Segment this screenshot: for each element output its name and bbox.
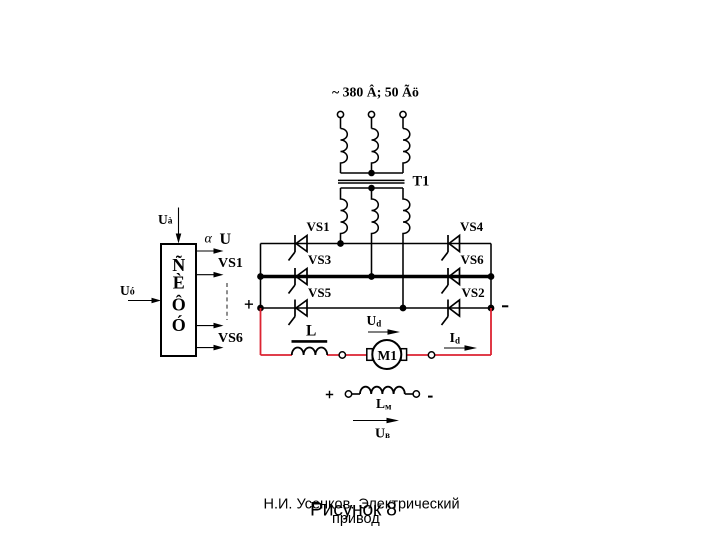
svg-text:Uà: Uà [158, 212, 173, 227]
control unit SIFU box [161, 244, 196, 356]
svg-text:Ud: Ud [367, 313, 382, 329]
arrow Ud [368, 329, 400, 335]
svg-text:Uв: Uв [375, 426, 390, 441]
transformer core line 1 [338, 179, 405, 181]
svg-text:VS2: VS2 [462, 285, 485, 300]
motor M1 brush left [367, 349, 373, 361]
arrow Id [444, 345, 477, 351]
thyristor VS3 [289, 268, 308, 294]
svg-text:Ô: Ô [172, 294, 186, 315]
junction left bus rail3 [258, 305, 263, 310]
svg-text:VS6: VS6 [461, 252, 485, 267]
svg-text:U: U [220, 231, 232, 248]
junction right bus rail2 [488, 274, 493, 279]
junction winding a rail1 [338, 241, 343, 246]
svg-text:α: α [205, 232, 213, 247]
svg-text:L: L [306, 323, 316, 340]
right dc bus [490, 244, 492, 309]
input arrow left [128, 298, 161, 304]
motor M1 circle [372, 340, 401, 369]
output arrow 4 [197, 345, 224, 351]
svg-text:VS3: VS3 [308, 252, 332, 267]
terminal circle right of motor [428, 352, 434, 358]
output arrow 1 [197, 248, 224, 254]
svg-text:Uó: Uó [120, 283, 135, 298]
secondary star bus [341, 187, 404, 189]
plus sign field [326, 391, 333, 399]
junction right bus rail3 [488, 305, 493, 310]
bridge rail 2 (bold) [261, 275, 492, 278]
junction winding b rail2 [369, 274, 374, 279]
red wire bottom loop [261, 354, 492, 356]
input arrow top [176, 208, 182, 244]
wire field right [405, 393, 413, 395]
junction winding c rail3 [400, 305, 405, 310]
smoothing reactor L coil [292, 348, 327, 355]
output arrow 3 [197, 323, 224, 329]
transformer T1 secondary winding a [341, 188, 348, 244]
output arrow 2 [197, 272, 224, 278]
red wire right bus down [490, 308, 492, 355]
left dc bus [260, 244, 262, 309]
reactor core bar [292, 340, 328, 343]
thyristor VS5 [289, 300, 308, 326]
junction left bus rail2 [258, 274, 263, 279]
dashed line outputs [226, 283, 228, 320]
red wire left bus down [260, 308, 262, 355]
minus sign dc output [502, 305, 508, 307]
terminal phase B [368, 111, 374, 117]
primary star bus [341, 172, 404, 174]
thyristor VS2 [442, 300, 460, 326]
bridge rail 3 [261, 307, 492, 309]
minus sign field [428, 396, 433, 398]
arrow Uv [353, 418, 399, 424]
terminal circle field right [413, 391, 419, 397]
transformer core line 2 [338, 182, 405, 184]
transformer T1 primary winding B [372, 129, 379, 174]
terminal circle left of motor [339, 352, 345, 358]
transformer T1 primary winding C [403, 129, 410, 174]
field winding Lm coil [360, 387, 405, 394]
thyristor VS1 [289, 235, 308, 261]
junction secondary star point [369, 186, 374, 191]
terminal phase A [337, 111, 343, 117]
svg-text:T1: T1 [413, 174, 430, 190]
transformer T1 primary winding A [341, 129, 348, 174]
wire C terminal to primary coil [402, 118, 404, 129]
wire A terminal to primary coil [340, 118, 342, 129]
svg-text:VS5: VS5 [308, 285, 332, 300]
plus sign dc output [245, 300, 253, 309]
svg-text:~ 380 Â; 50 Ãö: ~ 380 Â; 50 Ãö [332, 83, 419, 100]
svg-text:Ó: Ó [172, 314, 186, 335]
svg-text:VS1: VS1 [218, 256, 243, 271]
terminal phase C [400, 111, 406, 117]
svg-text:VS4: VS4 [460, 219, 484, 234]
terminal circle field left [345, 391, 351, 397]
thyristor VS6 [442, 268, 460, 294]
motor M1 brush right [401, 349, 407, 361]
svg-text:È: È [173, 272, 185, 293]
svg-text:Id: Id [450, 331, 460, 346]
svg-text:Lм: Lм [376, 396, 392, 413]
transformer T1 secondary winding b [372, 188, 379, 277]
svg-text:M1: M1 [378, 348, 398, 363]
svg-text:VS6: VS6 [218, 331, 243, 346]
wire field left [352, 393, 360, 395]
bridge rail 1 [261, 243, 492, 245]
svg-text:привод: привод [332, 511, 380, 527]
wire B terminal to primary coil [371, 118, 373, 129]
svg-text:VS1: VS1 [307, 219, 330, 234]
thyristor VS4 [442, 235, 460, 261]
transformer T1 secondary winding c [403, 188, 410, 308]
junction primary star point [369, 171, 374, 176]
